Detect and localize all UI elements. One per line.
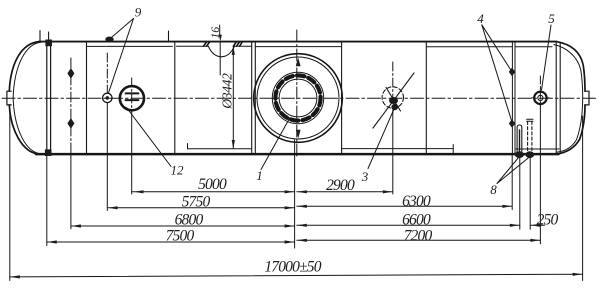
right head inner curve	[554, 45, 583, 153]
left head outer curve	[9, 42, 39, 155]
dimension row 3 lines	[71, 224, 545, 227]
right head outer curve	[556, 42, 585, 155]
svg-text:16: 16	[208, 27, 222, 39]
course seam pair x252	[252, 42, 256, 155]
item 9 small circle fitting	[103, 93, 112, 102]
item 3 valve dashed circle	[382, 87, 403, 108]
manhole saddle dip notch	[208, 46, 234, 57]
leader label 3	[368, 105, 396, 169]
extension line far right	[582, 116, 584, 281]
leader label 12	[127, 108, 172, 167]
label 16 leader underline	[219, 25, 222, 75]
course seam x87	[86, 42, 88, 155]
dia 3442 top arrow	[232, 46, 235, 55]
svg-text:5750: 5750	[182, 194, 211, 211]
tank shell top line	[39, 41, 556, 43]
dimension row 2 lines	[107, 206, 512, 208]
vertical centerline through diamonds x71	[70, 58, 72, 150]
dia 3442 dimension line	[232, 46, 234, 148]
extension line x46.8	[46, 156, 48, 246]
svg-text:6300: 6300	[402, 193, 431, 210]
manhole outer ring	[254, 54, 343, 143]
left nub flange	[7, 91, 11, 105]
dimension arrowheads	[10, 190, 582, 278]
svg-text:17000±50: 17000±50	[264, 259, 321, 276]
item 3 body blob	[389, 97, 398, 104]
item 4 diamond lower	[509, 119, 515, 128]
dia 3442 bottom arrow	[232, 140, 235, 149]
diamond fitting upper left	[67, 68, 74, 79]
leader label 5	[542, 25, 552, 90]
item 8 slot A foot blob	[515, 151, 524, 158]
manhole top arrow mark	[296, 58, 301, 67]
label 16 arrowhead	[219, 35, 222, 42]
leader label 4	[482, 25, 512, 121]
notch corner hatch right	[233, 42, 242, 46]
svg-text:250: 250	[537, 212, 559, 229]
item 8 slot A	[517, 125, 522, 154]
right nub flange	[585, 91, 589, 105]
item 9 top fitting blob	[105, 37, 113, 43]
left head inner curve	[13, 42, 41, 154]
texts	[166, 176, 559, 276]
item 12 circle fitting	[120, 86, 144, 110]
top sheet inner line	[87, 45, 552, 48]
dimension row 1 lines	[132, 191, 393, 193]
item 4 diamond upper	[509, 68, 515, 77]
left seam top lug	[45, 40, 52, 47]
manhole bottom arrow mark	[296, 130, 301, 139]
course seam x426	[425, 42, 427, 155]
item 8 pipe B dashed	[528, 122, 532, 155]
svg-text:Ø3442: Ø3442	[220, 73, 235, 110]
tank shell bottom line	[36, 153, 559, 156]
horizontal centerline	[2, 97, 598, 99]
svg-text:7200: 7200	[404, 228, 433, 245]
item 8 pipe B foot blob	[525, 151, 534, 158]
manhole centerline vertical	[296, 30, 298, 156]
svg-text:12: 12	[171, 163, 185, 178]
svg-text:8: 8	[490, 182, 497, 197]
manhole bolt ring	[272, 72, 323, 123]
course seam x513	[512, 42, 515, 155]
item 3 centerline	[392, 62, 394, 112]
dimension row 5 line 17000	[10, 274, 583, 277]
svg-text:5000: 5000	[198, 176, 227, 193]
item 12 centerline	[131, 78, 133, 112]
bottom sheet inner line	[188, 144, 560, 155]
svg-text:9: 9	[135, 5, 142, 20]
leader label 1	[261, 118, 290, 170]
item 9 centerline x107	[106, 53, 108, 93]
leader label 9	[108, 19, 133, 94]
left head weld seam pair	[47, 40, 51, 154]
seam extension for 6300	[511, 154, 513, 210]
svg-text:1: 1	[256, 168, 263, 183]
diamond fitting lower left	[67, 118, 74, 129]
svg-text:5: 5	[548, 11, 555, 26]
item 3 lever lines	[373, 73, 414, 128]
item 5 centerline	[539, 76, 541, 112]
svg-text:6800: 6800	[175, 212, 204, 229]
course seam x342	[341, 42, 343, 155]
svg-text:6600: 6600	[402, 212, 431, 229]
svg-text:4: 4	[477, 11, 484, 26]
svg-text:3: 3	[361, 169, 369, 184]
svg-text:7500: 7500	[166, 228, 195, 245]
item 5 circle fitting	[534, 92, 546, 104]
dims extension line at manhole center	[294, 140, 296, 248]
extension line far left	[9, 110, 11, 281]
svg-text:2900: 2900	[326, 177, 355, 194]
dimension row 4 lines	[47, 240, 541, 242]
course seam x175	[174, 42, 176, 155]
item 8 extension lines	[520, 158, 530, 230]
left seam bottom lug	[45, 149, 52, 156]
leader label 8	[497, 158, 529, 184]
ticks above shell left	[40, 31, 169, 42]
right head weld seam pair	[556, 42, 560, 155]
notch corner hatch left	[204, 42, 210, 46]
